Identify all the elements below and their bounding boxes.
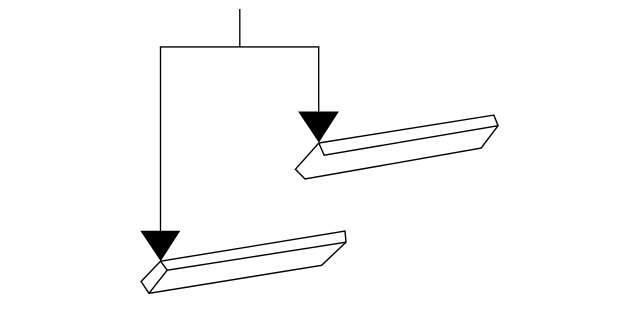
arrowhead (left, solid) [140,231,180,261]
arrowhead (right, solid) [298,112,339,143]
wire: horizontal branch [160,46,320,48]
wire: left vertical drop [160,47,162,232]
wire: right vertical drop [318,47,320,113]
board (upper right plank) [295,115,498,179]
board (lower left plank) [141,231,346,293]
wire: top vertical stub [239,9,241,47]
